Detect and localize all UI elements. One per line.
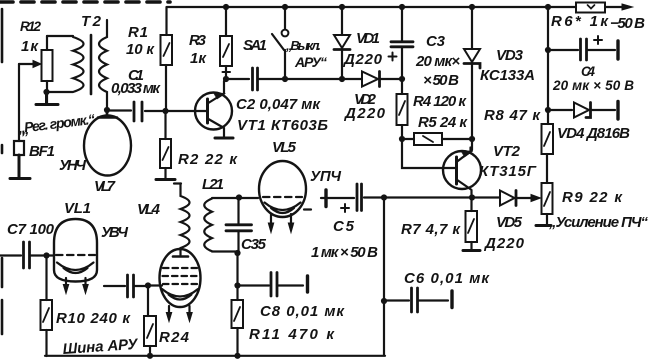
svg-text:L21: L21: [202, 176, 224, 193]
transistor VT1 KT603B: [195, 81, 232, 137]
svg-text:Д220: Д220: [342, 51, 383, 68]
node: R4/R5/VT2-base junction: [399, 136, 405, 142]
VL1 heater arcs: [57, 263, 94, 274]
svg-text:R5 24 к: R5 24 к: [418, 114, 468, 131]
svg-text:Д220: Д220: [343, 105, 386, 122]
svg-text:× 50 В: × 50 В: [423, 72, 459, 89]
capacitor C35: [226, 199, 252, 251]
resistor R8 47k: [542, 124, 554, 183]
arrow terminal -50V: [622, 4, 633, 10]
wire: C5 net to VT2: [384, 196, 470, 198]
capacitor C6 0.01uF: [386, 288, 448, 312]
svg-text:VD5: VD5: [496, 214, 523, 231]
stray mark below R3: [223, 71, 231, 73]
wiper arrow of R12: [19, 61, 41, 68]
node: VD4 junction: [545, 107, 551, 113]
node: C8 junction: [234, 282, 240, 288]
svg-text:R6* 1к: R6* 1к: [551, 13, 609, 30]
svg-text:R12: R12: [20, 19, 41, 34]
ground under R2: [156, 178, 175, 181]
svg-text:1 к: 1 к: [190, 50, 207, 67]
svg-text:VL1: VL1: [64, 200, 91, 217]
svg-text:КТ315Г: КТ315Г: [479, 163, 537, 180]
node: rail junction C3: [399, 4, 405, 10]
svg-text:C5: C5: [333, 218, 355, 235]
terminal bar after C4: [616, 41, 619, 59]
tube VL5 (IF amp) envelope: [259, 161, 306, 217]
node: R12 bottom junction: [43, 89, 49, 95]
svg-text:УВЧ: УВЧ: [101, 224, 128, 241]
tube VL1 (RF amp) envelope: [54, 219, 97, 282]
svg-text:R1: R1: [128, 24, 148, 41]
terminal bar after C8: [306, 276, 309, 292]
capacitor C8 0.01uF: [239, 273, 303, 297]
node: rail junction VD1: [339, 4, 345, 10]
potentiometer R12 1k: [42, 36, 53, 104]
svg-text:УПЧ: УПЧ: [310, 168, 341, 185]
node: T2 secondary / C1 / VL7 anode: [104, 107, 110, 113]
ground under R7: [463, 249, 480, 252]
svg-text:20 мк×: 20 мк×: [415, 53, 460, 70]
resistor R11 470k: [232, 300, 244, 356]
transformer T2 primary winding: [47, 36, 84, 92]
node: SA1 bottom junction: [282, 76, 288, 82]
svg-text:VD4 Д816В: VD4 Д816В: [557, 125, 630, 142]
VL4 anode: [173, 255, 188, 258]
resistor R4 120k: [397, 81, 408, 137]
svg-text:VT2: VT2: [493, 143, 521, 160]
speaker BF1: [14, 141, 24, 155]
wire: down to VT2: [471, 141, 473, 150]
transistor VT2 KT315G: [443, 148, 481, 196]
svg-text:VD1: VD1: [356, 30, 380, 47]
top crop border (dashed): [0, 0, 170, 4]
node: rail junction VD3: [469, 4, 475, 10]
capacitor C3 20uF x 50V (electrolytic): [389, 9, 414, 77]
node: C1/R1/R2/VT1 base junction: [162, 108, 168, 114]
svg-text:R2 22 к: R2 22 к: [178, 151, 238, 168]
potentiometer R9 22k: [542, 183, 553, 225]
capacitor C4 20uF x 50V: [548, 36, 615, 60]
wire: L21 bottom: [212, 250, 236, 252]
diode VD4 D816V (horizontal): [548, 103, 615, 118]
svg-text:Шина АРУ: Шина АРУ: [62, 336, 140, 358]
VL4 grids (dashed): [163, 268, 198, 284]
terminal bar after VD4: [616, 102, 619, 120]
resistor R2 22k: [160, 113, 171, 179]
svg-text:„: „: [21, 121, 30, 138]
ground bar shared by R2 / L21 top: [174, 182, 181, 184]
capacitor C7 100: [0, 242, 54, 268]
resistor R24: [144, 287, 156, 356]
svg-text:R7 4,7 к: R7 4,7 к: [401, 221, 461, 238]
svg-text:1 мк × 50 В: 1 мк × 50 В: [311, 244, 378, 261]
transformer T2 core: [90, 35, 93, 94]
node: VD1 bottom junction: [339, 76, 345, 82]
terminal bar before C5: [324, 190, 327, 207]
svg-text:C7 100: C7 100: [7, 221, 55, 238]
svg-text:R11 470 к: R11 470 к: [249, 326, 335, 343]
wire: into VL4 grid: [148, 284, 162, 286]
svg-text:T2: T2: [81, 13, 102, 30]
svg-text:VL5: VL5: [272, 139, 297, 156]
svg-text:VT1 КТ603Б: VT1 КТ603Б: [237, 117, 328, 134]
svg-text:R8 47 к: R8 47 к: [484, 107, 541, 124]
resistor R6* 1k (horizontal, adjustable): [576, 3, 605, 13]
svg-text:КС133А: КС133А: [480, 67, 535, 84]
capacitor C2 0.047uF: [226, 68, 284, 90]
inductor L21 left winding (VL4 anode coil): [181, 184, 190, 256]
svg-text:VL4: VL4: [137, 201, 161, 218]
node: C7 / R10 / VL1 grid: [43, 252, 49, 258]
wire: C2/SA1 to VD1: [285, 78, 340, 80]
wire: riser down to bus: [383, 199, 385, 355]
svg-text:VL7: VL7: [94, 178, 116, 195]
switch SA1: [272, 9, 288, 77]
ground under R9: [536, 224, 551, 227]
diode VD2 D220 (horizontal): [342, 72, 400, 87]
svg-text:20 мк × 50 В: 20 мк × 50 В: [552, 78, 634, 93]
ground under BF1: [10, 155, 30, 179]
svg-text:C2 0,047 мк: C2 0,047 мк: [236, 96, 321, 113]
tube VL4 envelope: [160, 249, 201, 307]
svg-text:„Выкл.: „Выкл.: [285, 38, 321, 53]
svg-text:УНЧ: УНЧ: [59, 157, 86, 174]
node: VT2 bottom / C5 net / R7 / VD5: [469, 194, 475, 200]
resistor R1 10k: [161, 7, 173, 109]
svg-text:SA1: SA1: [243, 37, 267, 54]
node: rail junction R3: [223, 4, 229, 10]
terminal bar after C6: [450, 291, 453, 308]
transformer T2 secondary winding: [99, 20, 107, 117]
node: L21 bottom / C35 / R11: [234, 250, 240, 256]
svg-text:C6 0,01 мк: C6 0,01 мк: [404, 270, 490, 287]
svg-text:10 к: 10 к: [126, 41, 155, 58]
svg-text:R10 240 к: R10 240 к: [56, 310, 131, 327]
wiper arrow into R9: [531, 195, 541, 202]
svg-text:R3: R3: [189, 32, 207, 49]
ground under R12: [36, 92, 58, 105]
svg-text:C4: C4: [581, 64, 595, 79]
svg-text:„Усиление ПЧ“: „Усиление ПЧ“: [548, 214, 649, 231]
VL5 grid (dashed): [263, 196, 302, 198]
VL7 anode: [98, 110, 117, 118]
node: C5 / C6 riser junction: [381, 194, 387, 200]
svg-text:0,033 мк: 0,033 мк: [111, 80, 161, 97]
svg-text:VD3: VD3: [496, 47, 524, 64]
node: rail junction SA1: [282, 4, 288, 10]
node: L21 / C35 top: [236, 194, 242, 200]
svg-text:Д220: Д220: [483, 235, 525, 252]
diode VD5 D220 (horizontal): [475, 191, 531, 206]
capacitor C31: [128, 275, 147, 297]
wire: junction down to VT2 base: [402, 141, 455, 168]
wire: bottom AGC bus: [45, 355, 385, 357]
svg-text:C35: C35: [241, 236, 267, 253]
inductor L21 right winding: [204, 199, 212, 252]
svg-text:C8 0,01 мк: C8 0,01 мк: [260, 303, 345, 320]
node: C3 bottom / R4 top junction: [399, 76, 405, 82]
VL5 pin arrows: [268, 214, 293, 233]
wire: L21 top to VL5 grid: [212, 197, 258, 199]
diode VD1 D220 (vertical): [334, 9, 350, 77]
VL4 pin arrows: [166, 306, 192, 322]
svg-text:АРУ“: АРУ“: [294, 54, 327, 70]
resistor R3 1k: [220, 9, 232, 77]
node: R5 right / VT2 collector line: [469, 136, 475, 142]
node: C4 junction: [545, 47, 551, 53]
wire: BF1 to R12 wiper: [18, 64, 20, 141]
wire: top supply rail: [167, 6, 576, 8]
svg-text:BF1: BF1: [29, 143, 55, 160]
zener VD3 KS133A: [464, 9, 480, 137]
wire: rail right of R6 with arrow to -50V: [605, 6, 622, 8]
ground under VT1 emitter: [215, 137, 233, 140]
VL1 grid (dashed): [56, 254, 95, 256]
node: rail junction R6/C4: [545, 4, 551, 10]
svg-text:C3: C3: [426, 33, 446, 50]
svg-text:R24: R24: [159, 329, 190, 346]
VL5 heater arcs: [265, 203, 301, 214]
resistor R7 4.7k: [466, 199, 478, 250]
VL4 heater arcs: [162, 289, 198, 300]
capacitor C1 0.033uF: [110, 102, 163, 121]
resistor R5 24k (horizontal): [402, 133, 470, 145]
svg-text:R4 120 к: R4 120 к: [413, 93, 467, 110]
svg-text:1 к: 1 к: [21, 38, 39, 55]
capacitor C5 1uF x 50V: [321, 184, 382, 212]
svg-text:R9 22 к: R9 22 к: [562, 189, 623, 206]
node: C31 / R24 / VL4 grid: [145, 282, 151, 288]
wire: C31 from VL1: [104, 285, 125, 287]
wire: C35 down to R11: [236, 253, 238, 300]
left crop border (dashed): [1, 9, 4, 334]
node: VT1 collector / R3 / C2: [223, 76, 229, 82]
svg-text:−50 В: −50 В: [610, 15, 645, 32]
VL1 pin arrows: [63, 278, 88, 294]
resistor R10 240k: [41, 258, 53, 356]
node: R24 on bus: [147, 353, 153, 359]
node: R11 on bus: [234, 353, 240, 359]
wire: rail down to C4/VD4/R8: [547, 9, 549, 124]
node: C6 junction: [381, 298, 387, 304]
wire: base net to VT1: [168, 110, 206, 112]
tube VL7 (AF amp) envelope: [84, 116, 131, 176]
VL5 cathode stub: [304, 208, 311, 210]
